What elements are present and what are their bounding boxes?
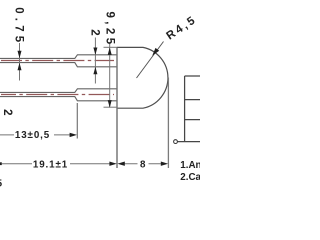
side view table: left edge — [184, 76, 186, 142]
svg-text:13±0,5: 13±0,5 — [15, 130, 50, 141]
pin marker circle — [174, 140, 178, 144]
lead 2 centerline — [1, 94, 114, 96]
extension stub bottom (body dia) — [104, 106, 118, 108]
extension line for 13 dimension — [76, 103, 78, 139]
dimension line 8 (body length) — [124, 163, 161, 165]
dimension line 9,25 (body diameter) — [109, 44, 111, 108]
side view table: rungs — [177, 76, 200, 142]
extension stub top (body dia) — [104, 46, 118, 48]
svg-text:8: 8 — [140, 159, 146, 170]
dimension line 19.1±1 — [2, 163, 110, 165]
svg-text:9,25: 9,25 — [104, 12, 116, 48]
lead 1 centerline — [1, 60, 114, 62]
dimension line 13±0,5 — [0, 134, 70, 136]
extension line from dome tip — [167, 78, 169, 169]
radius leader R4,5 — [137, 42, 164, 79]
svg-text:2: 2 — [1, 109, 13, 115]
lead 1 (anode lead, top) — [0, 55, 117, 67]
svg-text:1.Anode: 1.Anode — [180, 160, 200, 171]
LED body outline (flange + cylinder + dome) — [117, 47, 168, 108]
dimension line 0.75 (thin lead thickness) — [19, 43, 21, 81]
svg-text:19.1±1: 19.1±1 — [33, 159, 68, 170]
svg-text:0.75: 0.75 — [12, 7, 24, 46]
svg-text:5: 5 — [0, 179, 3, 190]
svg-text:2.Cathode: 2.Cathode — [180, 172, 200, 183]
body base (flange) vertical edge with extension line down — [116, 47, 118, 168]
dimension line 2 (wide lead width) — [94, 38, 96, 84]
lead 2 (cathode lead, bottom) — [0, 89, 117, 101]
svg-text:2: 2 — [88, 29, 100, 35]
svg-text:R4,5: R4,5 — [164, 14, 199, 43]
